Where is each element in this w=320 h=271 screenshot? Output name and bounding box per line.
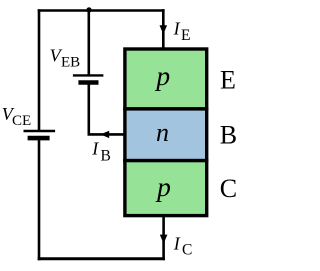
svg-text:E: E bbox=[181, 27, 190, 44]
wire right vertical lower (collector to bottom rail) bbox=[162, 216, 165, 261]
battery VCE short plate (-) bbox=[28, 136, 50, 141]
wire middle vertical upper (junction to VEB battery) bbox=[88, 9, 91, 75]
arrowhead IC (collector current, pointing down) bbox=[160, 235, 168, 244]
battery VEB long plate (+) bbox=[73, 74, 104, 76]
battery VEB short plate (-) bbox=[78, 80, 98, 85]
collector p region (green) bbox=[125, 161, 207, 216]
svg-text:I: I bbox=[173, 233, 181, 253]
wire bottom horizontal bbox=[38, 257, 165, 260]
svg-text:C: C bbox=[182, 242, 192, 259]
wire middle vertical lower (VEB battery down to base corner) bbox=[88, 83, 91, 135]
svg-text:E: E bbox=[220, 66, 236, 95]
arrowhead IE (current into emitter, pointing down) bbox=[160, 25, 168, 34]
svg-text:p: p bbox=[154, 60, 170, 91]
svg-text:C: C bbox=[220, 174, 237, 203]
svg-text:n: n bbox=[156, 118, 169, 147]
wire base horizontal (corner to base region) bbox=[88, 133, 127, 136]
svg-text:I: I bbox=[173, 18, 181, 38]
emitter p region (green) bbox=[125, 49, 207, 109]
svg-text:B: B bbox=[220, 121, 237, 150]
arrowhead IB (base current, pointing left) bbox=[100, 131, 109, 138]
svg-text:CE: CE bbox=[12, 113, 31, 129]
wire left vertical upper (VCE + terminal to top rail) bbox=[38, 9, 41, 131]
base n region (blue) bbox=[125, 109, 207, 161]
svg-text:I: I bbox=[91, 139, 99, 159]
svg-text:B: B bbox=[101, 148, 111, 165]
node junction dot bbox=[86, 7, 91, 12]
battery VCE long plate (+) bbox=[24, 130, 56, 132]
wire top horizontal bbox=[38, 9, 165, 12]
svg-text:p: p bbox=[155, 171, 171, 202]
svg-text:EB: EB bbox=[61, 54, 80, 70]
wire left vertical lower (VCE battery to bottom rail) bbox=[38, 138, 41, 260]
wire right vertical upper (top rail to emitter) bbox=[162, 9, 165, 50]
